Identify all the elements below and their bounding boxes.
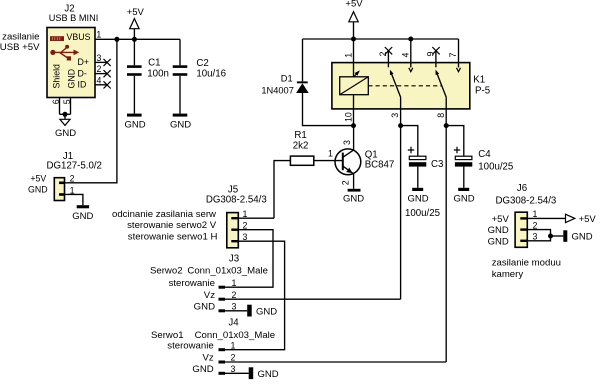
svg-text:3: 3	[231, 364, 236, 374]
svg-text:+5V: +5V	[345, 0, 363, 10]
svg-text:GND: GND	[258, 369, 279, 380]
J4 pin 1 sterowanie	[167, 340, 235, 351]
svg-text:3: 3	[342, 140, 352, 145]
wire VBUS to +5V rail	[95, 38, 180, 40]
wire relay pin 4	[410, 39, 412, 67]
svg-text:+5V: +5V	[492, 214, 510, 225]
power symbol +5V (right, arrow)	[566, 214, 597, 225]
svg-text:sterowanie: sterowanie	[167, 340, 213, 351]
wire to gnd bar	[551, 235, 564, 237]
ground symbol J4 (bar)	[249, 367, 279, 380]
J3 pin 1 sterowanie	[169, 278, 237, 289]
svg-text:BC847: BC847	[365, 159, 395, 170]
junction pin8/C4	[444, 123, 449, 128]
svg-text:2k2: 2k2	[293, 140, 309, 151]
wire J5 pin1 to R1	[238, 217, 274, 219]
svg-text:GND: GND	[124, 120, 145, 131]
svg-text:Vz: Vz	[202, 353, 213, 364]
svg-text:GND: GND	[343, 194, 364, 205]
power symbol +5V (relay)	[345, 0, 363, 39]
svg-text:USB B MINI: USB B MINI	[49, 13, 99, 23]
svg-text:1: 1	[232, 278, 237, 288]
svg-text:2: 2	[378, 52, 388, 57]
connector J6 body	[515, 212, 527, 247]
J6 net labels left	[488, 214, 510, 247]
wire J6 pin1 to +5V arrow	[527, 217, 565, 219]
svg-text:Conn_01x03_Male: Conn_01x03_Male	[187, 265, 268, 276]
svg-text:7: 7	[448, 53, 458, 58]
svg-text:10: 10	[343, 112, 353, 122]
J2 pin 4 ID	[78, 75, 111, 89]
junction pin10/D1/Q1	[351, 123, 356, 128]
svg-text:D1: D1	[281, 73, 293, 83]
K1 pin 4 open contact	[409, 68, 413, 72]
junction rail / +5V C1	[132, 37, 137, 42]
J1 pin bar 2	[59, 182, 65, 185]
svg-text:2: 2	[533, 220, 538, 230]
wire shield-gnd join	[60, 113, 71, 115]
svg-text:GND: GND	[170, 120, 191, 131]
wire J5 pin3 to J4 pin1	[219, 241, 285, 350]
J2 USB trident icon	[50, 45, 79, 61]
svg-text:GND: GND	[66, 69, 76, 89]
wire J2 pin6 down	[59, 98, 61, 115]
svg-text:sterowanie: sterowanie	[169, 278, 215, 289]
junction J2 gnd	[63, 112, 68, 117]
ground symbol under J2 (open triangle)	[55, 114, 76, 139]
connector J4 labels	[151, 317, 275, 341]
wire relay +5V rail	[303, 38, 459, 40]
svg-text:+5V: +5V	[30, 174, 46, 184]
connector J5 labels	[206, 185, 267, 206]
svg-text:sterowanie serwo1 H: sterowanie serwo1 H	[128, 231, 218, 242]
connector J2 USB B MINI label	[49, 3, 99, 23]
K1 pin 2 no-connect X	[385, 47, 392, 54]
svg-text:2: 2	[243, 221, 248, 231]
note zasilanie moduu kamery	[492, 257, 561, 280]
J6 pin numbers	[533, 209, 538, 241]
svg-text:sterowanie serwo2 V: sterowanie serwo2 V	[127, 220, 217, 231]
ground symbol J6 (bar)	[563, 230, 592, 242]
K1 switch arm 1 with arrow	[388, 69, 400, 97]
connector J1 body	[54, 178, 64, 201]
svg-text:1: 1	[343, 53, 353, 58]
power symbol +5V (left)	[127, 7, 145, 39]
J3 pin 3 GND	[194, 301, 248, 312]
junction rail / J1 branch	[114, 37, 119, 42]
junction rail pin1	[351, 37, 356, 42]
svg-text:J6: J6	[517, 183, 527, 194]
wire J6 pin2	[527, 230, 550, 236]
wire relay pin 3 down	[400, 97, 402, 299]
svg-text:Serwo2: Serwo2	[150, 265, 183, 276]
capacitor C1	[127, 39, 169, 113]
svg-text:GND: GND	[194, 301, 215, 312]
wire rail down to C2	[179, 39, 181, 65]
svg-text:DG127-5.0/2: DG127-5.0/2	[46, 161, 101, 172]
svg-text:GND: GND	[192, 364, 213, 375]
svg-text:GND: GND	[454, 194, 475, 205]
svg-text:C4: C4	[478, 149, 491, 160]
connector J2 body	[47, 28, 95, 98]
svg-text:1: 1	[328, 149, 333, 159]
wire relay pin 7	[458, 39, 460, 67]
J5 pin numbers	[243, 209, 248, 242]
J2 pin 3 D+	[78, 53, 111, 67]
svg-text:4: 4	[400, 53, 410, 58]
svg-text:2: 2	[341, 180, 351, 185]
svg-text:odcinanie zasilania serw: odcinanie zasilania serw	[112, 209, 216, 220]
svg-text:+5V: +5V	[127, 7, 145, 18]
wire R1 right to Q1 base	[314, 160, 343, 162]
svg-text:C1: C1	[148, 57, 160, 68]
svg-text:+5V: +5V	[579, 214, 597, 225]
wire relay pin 10	[353, 95, 355, 126]
svg-text:GND: GND	[72, 211, 93, 222]
svg-text:K1: K1	[473, 75, 485, 86]
transistor Q1 BC847	[335, 149, 394, 175]
connector J6 labels	[495, 183, 556, 206]
capacitor C3 100u/25	[408, 147, 444, 188]
wire J1 pin1 to gnd	[65, 194, 83, 205]
svg-text:DG308-2.54/3: DG308-2.54/3	[206, 195, 267, 206]
K1 switch arm 2 with arrow	[434, 69, 446, 97]
svg-text:8: 8	[436, 113, 446, 118]
J1 pin bar 1	[59, 193, 65, 196]
svg-text:GND: GND	[28, 185, 48, 195]
svg-text:GND: GND	[408, 194, 429, 205]
wire pin3 node to C3	[401, 126, 418, 157]
svg-text:3: 3	[390, 113, 400, 118]
ground symbol under C3	[408, 188, 429, 205]
svg-text:2: 2	[232, 290, 237, 300]
K1 coil	[340, 69, 369, 95]
svg-text:2: 2	[97, 64, 102, 74]
J3 pin 2 Vz wire to relay pin3	[204, 290, 401, 301]
svg-text:100n: 100n	[147, 68, 169, 79]
wire relay pin 1	[353, 39, 355, 77]
wire J1 pin2 to rail	[65, 39, 117, 183]
svg-text:kamery: kamery	[492, 269, 524, 280]
wire relay pin 8 down	[445, 97, 447, 362]
svg-text:3: 3	[243, 232, 248, 242]
svg-text:3: 3	[97, 53, 102, 63]
svg-text:1: 1	[243, 209, 248, 219]
svg-text:100u/25: 100u/25	[405, 208, 440, 219]
K1 dashed actuation line	[368, 85, 442, 87]
ground symbol under Q1	[343, 189, 364, 205]
junction rail pin4	[408, 37, 413, 42]
ground symbol under C4	[454, 188, 475, 205]
svg-text:1: 1	[231, 340, 236, 350]
K1 pin 2 stub and contact	[387, 51, 389, 68]
svg-text:zasilanie moduu: zasilanie moduu	[492, 257, 561, 268]
K1 pin 9 stub	[435, 51, 437, 68]
svg-text:VBUS: VBUS	[67, 32, 91, 42]
wire Q1 collector	[353, 126, 355, 150]
wire rail down to D1	[302, 39, 304, 81]
svg-text:9: 9	[426, 52, 436, 57]
svg-text:C3: C3	[431, 159, 443, 170]
svg-text:zasilanie: zasilanie	[2, 32, 39, 43]
svg-text:GND: GND	[488, 225, 509, 236]
ground symbol under C2	[170, 114, 191, 131]
svg-text:P-5: P-5	[475, 85, 490, 96]
J4 pin 3 GND	[192, 364, 248, 375]
svg-text:100u/25: 100u/25	[478, 161, 513, 172]
svg-text:GND: GND	[256, 307, 277, 318]
J2 USB receptacle icon	[50, 36, 64, 41]
diode D1 1N4007	[261, 73, 308, 95]
net label zasilanie USB +5V	[0, 32, 40, 54]
ground symbol under C1	[124, 114, 145, 131]
J6 pin bars	[520, 217, 527, 242]
J5 pin bars	[231, 217, 238, 242]
svg-text:3: 3	[533, 232, 538, 242]
connector J1 labels	[46, 151, 101, 171]
wire Q1 emitter to gnd	[353, 174, 355, 189]
relay K1 body	[332, 63, 470, 109]
svg-text:GND: GND	[488, 236, 509, 247]
svg-text:4: 4	[97, 75, 102, 85]
svg-text:DG308-2.54/3: DG308-2.54/3	[495, 195, 556, 206]
ground symbol under J1	[72, 205, 93, 222]
K1 pin 9 no-connect X	[432, 47, 439, 54]
wire J5 pin2 to J3 pin1	[219, 230, 274, 288]
wire D1 anode to pin10 node	[303, 93, 354, 126]
connector J3 labels	[150, 254, 268, 277]
junction pin3/C3	[398, 123, 403, 128]
J2 pin 2 D-	[78, 64, 111, 78]
wire R1 left to J5 pin1	[274, 161, 290, 219]
K1 pin 7 open contact	[457, 68, 461, 72]
connector J5 body	[227, 213, 239, 248]
K1 labels	[473, 75, 490, 97]
svg-text:1: 1	[96, 30, 101, 40]
resistor R1 2k2	[290, 130, 313, 165]
svg-text:J4: J4	[228, 317, 239, 328]
svg-text:ID: ID	[78, 80, 87, 90]
svg-text:1N4007: 1N4007	[261, 85, 294, 95]
wire J2 pin5 down	[70, 98, 72, 115]
svg-text:10u/16: 10u/16	[196, 69, 226, 80]
svg-text:Vz: Vz	[204, 290, 215, 301]
svg-text:Shield: Shield	[51, 64, 61, 89]
svg-text:GND: GND	[55, 128, 76, 139]
svg-text:GND: GND	[572, 232, 593, 243]
capacitor C4 100u/25	[454, 147, 514, 188]
svg-text:D+: D+	[78, 57, 90, 67]
wire J6 pin3	[527, 236, 550, 241]
svg-text:C2: C2	[196, 58, 208, 69]
wire pin8 node to C4	[446, 126, 464, 157]
svg-text:3: 3	[232, 301, 237, 311]
svg-text:J3: J3	[229, 254, 239, 265]
svg-text:USB +5V: USB +5V	[0, 42, 40, 53]
J4 pin 2 Vz wire to relay pin8	[202, 353, 446, 364]
svg-text:1: 1	[533, 209, 538, 219]
junction J6 gnd	[548, 234, 553, 239]
svg-text:D-: D-	[78, 68, 87, 78]
capacitor C2	[173, 58, 226, 113]
ground symbol J3 (bar)	[247, 305, 277, 318]
svg-text:2: 2	[231, 353, 236, 363]
